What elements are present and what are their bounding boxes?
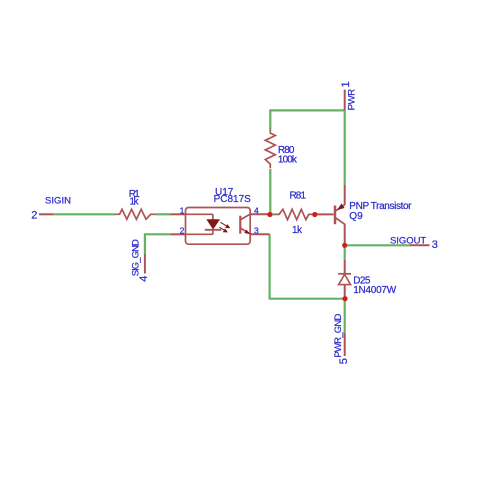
svg-text:SIG_GND: SIG_GND (131, 239, 142, 276)
svg-text:1k: 1k (292, 225, 303, 236)
svg-text:1N4007W: 1N4007W (353, 285, 397, 296)
svg-text:1: 1 (180, 205, 185, 215)
svg-text:4: 4 (254, 205, 259, 215)
svg-text:5: 5 (338, 358, 350, 364)
svg-text:100k: 100k (278, 154, 298, 165)
svg-text:PC817S: PC817S (214, 194, 252, 205)
svg-text:PWR: PWR (347, 89, 358, 111)
svg-text:2: 2 (180, 225, 185, 235)
svg-text:1: 1 (340, 81, 352, 87)
svg-text:3: 3 (254, 225, 259, 235)
svg-text:R81: R81 (290, 190, 307, 201)
svg-text:Q9: Q9 (349, 211, 363, 222)
svg-text:SIGOUT: SIGOUT (390, 235, 426, 246)
svg-text:3: 3 (432, 239, 438, 251)
svg-text:2: 2 (31, 209, 37, 221)
svg-text:1k: 1k (130, 197, 140, 208)
svg-text:SIGIN: SIGIN (45, 195, 71, 206)
svg-text:PWR_GND: PWR_GND (333, 313, 344, 357)
